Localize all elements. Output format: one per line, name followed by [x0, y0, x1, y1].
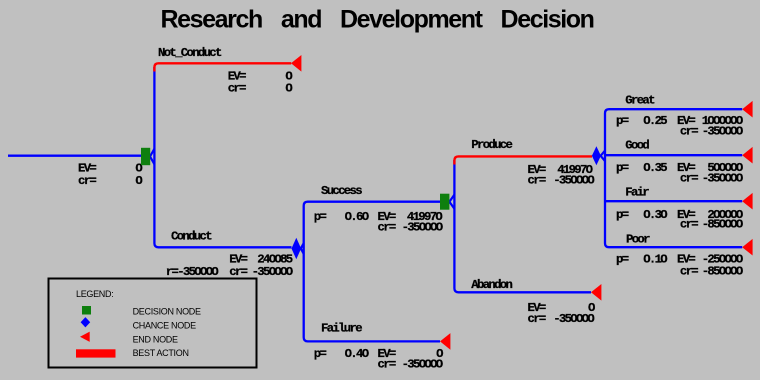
label: Great cr row	[680, 125, 743, 139]
label: Poor p/EV row	[616, 252, 743, 266]
label: chance node C1 EV row	[229, 253, 293, 267]
label: Produce cr row	[528, 174, 595, 188]
svg-text:-85OOOO: -85OOOO	[702, 218, 743, 232]
svg-text:O: O	[135, 174, 142, 188]
svg-text:O.4O: O.4O	[345, 347, 369, 361]
decision node D1 (green square)	[141, 148, 150, 165]
svg-text:cr=: cr=	[680, 218, 698, 232]
svg-text:cr=: cr=	[228, 82, 246, 96]
svg-text:cr=: cr=	[78, 174, 96, 188]
svg-text:Fair: Fair	[625, 186, 649, 200]
svg-text:p=: p=	[314, 347, 327, 361]
label: chance node C1 cr rows	[166, 265, 293, 279]
end node: Poor (red triangle)	[742, 239, 752, 256]
decision node D2 (green square)	[440, 194, 449, 210]
svg-text:O.6O: O.6O	[345, 210, 369, 224]
svg-text:O.1O: O.1O	[643, 252, 667, 266]
svg-text:cr=: cr=	[528, 174, 546, 188]
end node: Good (red triangle)	[742, 147, 752, 164]
label: Failure cr row	[378, 358, 443, 372]
label: Good p/EV row	[616, 161, 743, 175]
wire: Fair branch	[605, 200, 742, 202]
svg-text:CHANCE NODE: CHANCE NODE	[133, 320, 197, 330]
svg-text:Research and Development Decis: Research and Development Decision	[161, 6, 594, 34]
node C1 flare	[301, 243, 304, 254]
svg-text:O: O	[285, 82, 292, 96]
svg-text:O.3O: O.3O	[643, 208, 667, 222]
svg-text:Good: Good	[625, 139, 649, 153]
end node: Fair (red triangle)	[742, 193, 752, 210]
label: Produce EV row	[528, 163, 593, 177]
node D1 flare	[150, 149, 154, 164]
label: Not_Conduct cr row	[228, 82, 293, 96]
svg-text:p=: p=	[616, 252, 629, 266]
svg-text:Conduct: Conduct	[171, 230, 212, 244]
svg-text:O.25: O.25	[643, 114, 667, 128]
svg-text:BEST ACTION: BEST ACTION	[133, 348, 189, 358]
label: Success p/EV row	[314, 210, 443, 224]
wire: root entry branch	[8, 155, 141, 157]
svg-text:-85OOOO: -85OOOO	[702, 265, 743, 279]
wire: C1 riser with Success and Failure branches	[304, 202, 440, 342]
svg-text:cr=: cr=	[680, 265, 698, 279]
wire: D1 riser and Conduct branch	[154, 67, 291, 247]
label: Poor cr row	[680, 265, 743, 279]
legend chance node icon	[81, 317, 91, 327]
svg-text:O.35: O.35	[643, 161, 667, 175]
label: Abandon EV row	[528, 301, 596, 315]
svg-text:-35OOOO: -35OOOO	[553, 174, 594, 188]
svg-text:p=: p=	[314, 210, 327, 224]
svg-text:-35OOOO: -35OOOO	[702, 171, 743, 185]
svg-text:cr=: cr=	[229, 265, 247, 279]
chance node C1 (blue diamond)	[292, 238, 302, 260]
wire: Produce branch (best action, red)	[454, 156, 592, 164]
svg-text:-35OOOO: -35OOOO	[402, 220, 443, 234]
svg-text:-35OOOO: -35OOOO	[402, 358, 443, 372]
label: Not_Conduct EV row	[228, 70, 293, 84]
end node: Not_Conduct (red triangle)	[291, 55, 301, 72]
svg-text:Abandon: Abandon	[471, 278, 512, 292]
svg-text:cr=: cr=	[528, 312, 546, 326]
label: Good cr row	[680, 171, 743, 185]
node D2 flare	[449, 195, 454, 209]
wire: C2 riser with Great and Poor branches	[605, 109, 742, 247]
svg-text:-35OOOO: -35OOOO	[702, 125, 743, 139]
wire: D2 riser and Abandon branch	[454, 160, 591, 292]
end node: Abandon (red triangle)	[591, 284, 601, 301]
svg-text:cr=: cr=	[680, 125, 698, 139]
svg-text:Great: Great	[625, 93, 655, 107]
legend box	[49, 279, 257, 368]
label: Great p/EV row	[616, 114, 743, 128]
svg-text:Not_Conduct: Not_Conduct	[158, 46, 222, 60]
svg-text:DECISION NODE: DECISION NODE	[133, 306, 201, 316]
svg-text:Failure: Failure	[321, 321, 362, 335]
label: Fair cr row	[680, 218, 743, 232]
legend best action icon (red bar)	[76, 349, 116, 357]
svg-text:LEGEND:: LEGEND:	[76, 289, 113, 299]
svg-text:r=-35OOOO: r=-35OOOO	[166, 265, 219, 279]
label: Abandon cr row	[528, 312, 595, 326]
svg-text:p=: p=	[616, 161, 629, 175]
end node: Failure (red triangle)	[440, 333, 450, 350]
legend end node icon	[80, 332, 90, 342]
wire: Good branch	[605, 154, 742, 156]
svg-text:p=: p=	[616, 208, 629, 222]
svg-text:cr=: cr=	[378, 220, 396, 234]
svg-text:-35OOOO: -35OOOO	[553, 312, 594, 326]
svg-text:Poor: Poor	[626, 232, 650, 246]
label: Fair p/EV row	[616, 208, 743, 222]
svg-text:cr=: cr=	[680, 171, 698, 185]
end node: Great (red triangle)	[742, 101, 752, 118]
legend decision node icon	[82, 306, 91, 315]
label: Success cr row	[378, 220, 443, 234]
label: root EV row	[78, 162, 142, 176]
svg-text:cr=: cr=	[378, 358, 396, 372]
chance node C2 (blue diamond)	[592, 146, 601, 165]
node C2 flare	[601, 151, 605, 161]
svg-text:-35OOOO: -35OOOO	[252, 265, 293, 279]
label: root cr row	[78, 174, 142, 188]
wire: Not_Conduct branch (best action, red)	[154, 63, 291, 71]
svg-text:p=: p=	[616, 114, 629, 128]
label: Failure p/EV row	[314, 347, 443, 361]
svg-text:END NODE: END NODE	[133, 334, 178, 344]
svg-text:Success: Success	[321, 184, 362, 198]
svg-text:Produce: Produce	[471, 138, 512, 152]
